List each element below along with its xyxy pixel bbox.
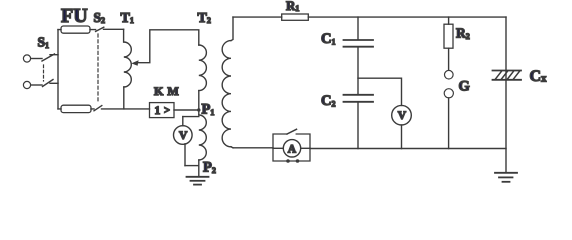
transformer T2 secondary winding xyxy=(222,17,233,148)
svg-text:P1: P1 xyxy=(202,102,215,118)
wire top-left rail xyxy=(58,28,124,30)
svg-text:S2: S2 xyxy=(94,10,106,25)
svg-text:V: V xyxy=(179,130,188,142)
svg-text:T2: T2 xyxy=(198,11,211,26)
test object Cx wire xyxy=(505,17,507,173)
resistor R1 xyxy=(282,14,309,20)
wire capacitive divider branch xyxy=(357,17,359,149)
wire bottom-left rail xyxy=(58,108,150,110)
wire bottom rail xyxy=(233,147,506,150)
overcurrent relay KM xyxy=(150,103,175,118)
svg-text:T1: T1 xyxy=(121,11,134,26)
wire KM to node P1 xyxy=(174,109,199,111)
node P1 junction dot xyxy=(197,108,200,111)
svg-text:A: A xyxy=(288,143,297,155)
svg-text:KM: KM xyxy=(154,84,183,98)
voltmeter V divider xyxy=(392,105,412,148)
transformer T2 instrument winding P1-P2 xyxy=(199,115,207,177)
T1 tap arrow and wire to T2 xyxy=(131,30,199,66)
svg-text:R1: R1 xyxy=(286,0,299,13)
ground at P2 xyxy=(187,177,209,185)
svg-text:FU: FU xyxy=(61,5,88,27)
ammeter A with bypass switch box xyxy=(273,129,310,163)
fuse FU top xyxy=(61,26,90,33)
svg-text:P2: P2 xyxy=(203,160,216,176)
svg-text:Cx: Cx xyxy=(530,68,548,85)
svg-text:V: V xyxy=(398,110,407,122)
capacitor C1 xyxy=(344,40,374,47)
capacitor C2 xyxy=(344,95,374,102)
svg-text:S1: S1 xyxy=(38,35,50,50)
autotransformer T1 xyxy=(124,29,132,109)
svg-text:R2: R2 xyxy=(456,26,470,41)
switch S2 (two blades + link) xyxy=(94,27,104,111)
svg-text:G: G xyxy=(459,79,470,95)
resistor R2 branch wire xyxy=(448,17,450,149)
svg-text:>: > xyxy=(164,106,170,117)
switch S1 xyxy=(23,54,58,89)
svg-text:1: 1 xyxy=(155,105,161,117)
transformer T2 primary winding xyxy=(199,45,207,115)
divider mid junction wire xyxy=(358,78,402,105)
resistor R2 xyxy=(444,24,453,48)
wire left bus xyxy=(57,30,59,109)
voltmeter V primary side xyxy=(174,117,199,166)
svg-text:C2: C2 xyxy=(321,93,335,109)
test object Cx xyxy=(493,71,522,80)
svg-text:C1: C1 xyxy=(321,31,335,47)
ground main (right) xyxy=(495,173,517,182)
spark gap G xyxy=(444,70,453,98)
wire HV top rail xyxy=(233,16,506,18)
fuse FU bottom xyxy=(61,105,91,112)
